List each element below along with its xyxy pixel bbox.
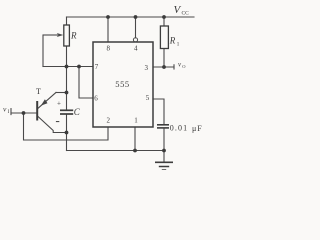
node collector / C bottom	[65, 131, 69, 135]
wire pin3 row to vO	[153, 66, 174, 68]
svg-text:3: 3	[144, 64, 148, 72]
svg-text:R: R	[70, 31, 77, 41]
wire pin6 jog	[79, 67, 93, 99]
node pin1 bottom rail	[133, 149, 137, 153]
resistor R	[64, 25, 70, 46]
wire pin8	[107, 17, 109, 42]
svg-text:6: 6	[94, 95, 98, 103]
wire ground stem	[163, 151, 165, 162]
svg-text:I: I	[8, 110, 10, 115]
node junction dots	[22, 15, 166, 152]
pin4 reset bubble	[133, 38, 137, 42]
svg-text:8: 8	[106, 45, 110, 53]
wire pin4	[135, 17, 137, 38]
svg-text:T: T	[36, 87, 41, 96]
wire left column arrow feed	[42, 35, 44, 67]
capacitor C3 0.01uF plates	[157, 124, 169, 126]
svg-text:2: 2	[107, 117, 111, 125]
svg-text:555: 555	[115, 79, 130, 89]
ground	[155, 162, 173, 170]
wire R1 bottom	[163, 49, 165, 68]
svg-text:4: 4	[134, 45, 138, 53]
svg-text:R: R	[169, 36, 176, 46]
wire top rail Vcc	[67, 16, 195, 18]
wire R top	[66, 17, 68, 25]
wire pin1	[134, 127, 136, 151]
node Vcc / R1 top	[162, 15, 166, 19]
node pin6 branch	[77, 65, 81, 69]
terminal tick vO	[173, 65, 175, 69]
svg-text:1: 1	[134, 117, 138, 125]
transistor Q T bar	[36, 101, 38, 121]
svg-text:0.01: 0.01	[170, 123, 188, 132]
svg-text:1: 1	[177, 42, 180, 48]
capacitor C plates	[60, 109, 73, 111]
wire pin5 jog	[153, 99, 164, 124]
resistor R1	[160, 26, 168, 49]
transistor emitter arrowhead	[41, 99, 48, 105]
svg-text:+: +	[57, 100, 61, 108]
wire R1 top	[163, 17, 165, 26]
wire R bottom to pin7 row	[66, 46, 68, 67]
svg-text:V: V	[174, 4, 182, 16]
svg-text:7: 7	[95, 63, 99, 71]
node pin3 / R1 / vO	[162, 65, 166, 69]
node base input	[22, 111, 26, 115]
svg-text:C: C	[74, 107, 81, 117]
node pin8 top	[106, 15, 110, 19]
wire base lead vI	[11, 112, 37, 114]
wire R/C column pin7 to cap top	[66, 67, 68, 110]
wire cap2 bottom	[163, 129, 165, 151]
wire emitter horizontal	[56, 92, 67, 94]
wire pin2 to base column	[24, 113, 109, 140]
svg-text:CC: CC	[182, 11, 190, 17]
svg-text:v: v	[3, 105, 7, 114]
node ground rail	[162, 149, 166, 153]
node pin4 top	[134, 15, 138, 19]
label C minus	[56, 121, 59, 123]
wire transistor emitter diagonal	[37, 92, 56, 108]
svg-text:5: 5	[146, 94, 150, 102]
node emitter / C top	[65, 91, 69, 95]
wire transistor collector diagonal	[38, 117, 67, 133]
svg-text:μF: μF	[192, 124, 203, 133]
wire pin7 row	[43, 66, 93, 68]
wire cap bottom to collector junction	[66, 115, 68, 151]
op-amp U1 555 IC box	[93, 42, 153, 127]
svg-text:O: O	[182, 64, 186, 69]
node R bottom pin7	[65, 65, 69, 69]
terminal tick vI	[10, 109, 12, 115]
arrow into R (wiper)	[43, 33, 63, 37]
wire bottom rail	[67, 150, 165, 152]
